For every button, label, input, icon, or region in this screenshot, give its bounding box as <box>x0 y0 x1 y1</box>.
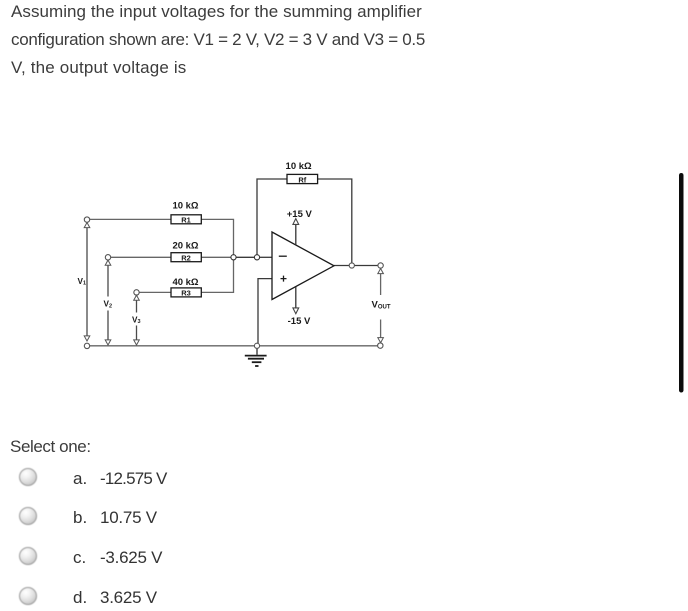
wire V2 drop <box>107 265 109 340</box>
-15V supply <box>288 287 311 327</box>
op-amp U1 <box>272 232 334 300</box>
terminal V3 <box>134 290 140 301</box>
arrow V1 bottom <box>84 336 90 341</box>
resistor R3 <box>171 277 201 298</box>
+15V supply <box>287 209 313 245</box>
svg-text:V3: V3 <box>132 315 141 325</box>
terminal Vout top <box>378 263 384 274</box>
terminal V1 <box>84 217 90 228</box>
terminal rail left end <box>84 343 89 348</box>
wire R2 to summing junction <box>201 256 231 258</box>
node feedback/output <box>349 263 354 268</box>
scrollbar <box>679 173 684 393</box>
wire V2 to R2 <box>111 256 172 258</box>
arrow V2 bottom <box>105 340 111 345</box>
node inverting input <box>254 255 259 260</box>
wire ground rail <box>90 345 379 347</box>
svg-text:20 kΩ: 20 kΩ <box>172 240 198 251</box>
svg-text:+15 V: +15 V <box>287 209 313 220</box>
svg-text:R3: R3 <box>181 289 191 298</box>
resistor R2 <box>171 240 201 262</box>
resistor Rf (feedback) <box>286 161 318 184</box>
svg-text:V2: V2 <box>104 300 113 310</box>
wire R1 to summing junction <box>201 219 233 254</box>
svg-text:10 kΩ: 10 kΩ <box>286 161 312 172</box>
svg-text:R2: R2 <box>181 254 191 263</box>
wire V3 drop <box>136 300 138 340</box>
wire node to op-amp inverting input <box>260 256 272 258</box>
svg-text:40 kΩ: 40 kΩ <box>172 277 198 288</box>
svg-text:VOUT: VOUT <box>372 300 391 311</box>
node ground <box>254 343 259 348</box>
wire op-amp noninverting input to ground rail <box>258 279 272 344</box>
wire R3 to summing junction <box>201 260 233 293</box>
svg-text:Rf: Rf <box>298 175 306 184</box>
resistor R1 <box>171 201 201 225</box>
svg-text:-15 V: -15 V <box>288 316 311 327</box>
wire Vout upper lead <box>380 274 382 295</box>
ground <box>245 348 267 366</box>
wire V3 to R3 <box>139 291 171 293</box>
option b <box>19 507 37 525</box>
option d <box>19 587 37 605</box>
option c <box>19 547 37 565</box>
wire op-amp output <box>334 265 378 267</box>
terminal V2 <box>105 255 111 266</box>
wire V1 drop <box>86 227 88 336</box>
wire junction to inverting node <box>236 256 254 258</box>
node summing junction <box>231 255 236 260</box>
svg-text:R1: R1 <box>181 216 191 225</box>
svg-text:10 kΩ: 10 kΩ <box>172 201 198 212</box>
wire Rf left leg <box>257 179 287 255</box>
svg-text:V1: V1 <box>78 277 87 287</box>
wire Rf right leg <box>318 179 352 263</box>
wire V1 to R1 <box>90 218 172 220</box>
wire Vout lower lead <box>380 320 382 338</box>
terminal Vout bottom <box>378 338 384 349</box>
arrow V3 bottom <box>134 340 140 345</box>
option a <box>19 468 37 486</box>
